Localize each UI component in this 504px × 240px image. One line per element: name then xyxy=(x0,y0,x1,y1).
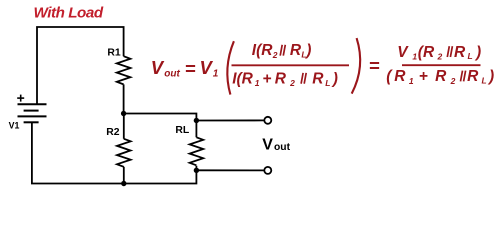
bottom output terminal xyxy=(264,167,271,174)
svg-text:=: = xyxy=(185,58,196,79)
battery V1 xyxy=(18,104,47,122)
big left paren xyxy=(227,41,234,94)
parallel bars den1 xyxy=(301,73,306,84)
svg-text:L: L xyxy=(468,51,473,61)
svg-text:(R: (R xyxy=(418,44,435,61)
wire R2 branch top xyxy=(123,114,125,139)
svg-text:R: R xyxy=(454,44,466,61)
svg-text:+: + xyxy=(262,70,271,87)
svg-text:V: V xyxy=(262,136,273,153)
svg-text:out: out xyxy=(164,68,180,79)
svg-text:2: 2 xyxy=(289,78,295,88)
resistor R2 xyxy=(117,139,131,167)
parallel bars num1 xyxy=(280,45,285,56)
svg-text:I(R: I(R xyxy=(232,70,253,87)
svg-text:R: R xyxy=(435,68,447,85)
resistor R1 xyxy=(117,56,131,84)
svg-text:R1: R1 xyxy=(107,48,121,59)
svg-text:(: ( xyxy=(386,68,393,85)
svg-text:R: R xyxy=(312,70,324,87)
svg-text:=: = xyxy=(369,55,380,76)
svg-text:R: R xyxy=(394,68,406,85)
svg-text:): ) xyxy=(304,42,311,59)
fraction 1 bar xyxy=(232,64,350,66)
svg-text:R: R xyxy=(467,68,479,85)
node junction dot R2 bottom xyxy=(121,181,126,186)
resistor RL xyxy=(190,137,204,165)
svg-text:V: V xyxy=(200,57,214,78)
wire battery bottom xyxy=(32,122,197,183)
svg-text:1: 1 xyxy=(255,78,260,88)
svg-text:I(R: I(R xyxy=(252,42,273,59)
svg-text:With Load: With Load xyxy=(34,5,104,22)
svg-text:R2: R2 xyxy=(106,127,120,138)
svg-text:2: 2 xyxy=(272,50,278,60)
svg-text:R: R xyxy=(275,70,287,87)
top output terminal xyxy=(264,117,271,124)
svg-text:R: R xyxy=(290,42,302,59)
fraction 2 bar xyxy=(402,64,481,66)
parallel bars num2 xyxy=(447,46,452,57)
wire to bottom terminal xyxy=(196,169,264,171)
wire node to RL branch xyxy=(124,114,197,121)
node junction dot RL top xyxy=(194,118,199,123)
svg-text:2: 2 xyxy=(437,52,443,62)
wire R1 bottom to node xyxy=(123,84,125,113)
svg-text:1: 1 xyxy=(409,76,414,86)
svg-text:): ) xyxy=(487,68,494,85)
wire top-left loop xyxy=(37,27,124,104)
svg-text:out: out xyxy=(274,142,291,153)
svg-text:+: + xyxy=(419,68,428,85)
svg-text:V: V xyxy=(397,44,409,61)
svg-text:L: L xyxy=(482,76,487,86)
svg-text:RL: RL xyxy=(175,125,190,136)
node junction dot R1/R2 xyxy=(121,111,126,116)
wire to top terminal xyxy=(196,119,264,121)
svg-text:V: V xyxy=(151,57,165,78)
wire R2 bottom xyxy=(123,167,125,184)
svg-text:1: 1 xyxy=(213,69,219,80)
svg-text:1: 1 xyxy=(412,51,417,61)
node junction dot RL bottom xyxy=(194,168,199,173)
svg-text:): ) xyxy=(331,70,338,87)
svg-text:2: 2 xyxy=(450,76,456,86)
battery plus sign xyxy=(17,95,24,102)
svg-text:V1: V1 xyxy=(9,121,20,131)
svg-text:L: L xyxy=(325,78,330,88)
parallel bars den2 xyxy=(461,71,466,82)
big right paren xyxy=(352,38,360,94)
equation: Vout = V1 ( I(R2||RL) / I(R1+R2||RL) ) = V1(R2||RL)/(R1+R2||RL) xyxy=(151,38,494,95)
wire RL branch xyxy=(195,121,197,138)
svg-text:): ) xyxy=(474,44,481,61)
